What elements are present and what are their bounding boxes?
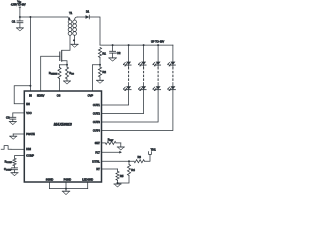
LED D3A: [152, 62, 160, 67]
wire RSENSE to CS pin: [59, 79, 61, 92]
svg-text:C2: C2: [117, 51, 121, 55]
svg-text:COMP: COMP: [26, 154, 34, 158]
ground C1: [16, 27, 23, 29]
signal DIM pulse: [1, 146, 24, 150]
wire secondary to ground: [74, 35, 76, 44]
resistor R3: [134, 155, 145, 163]
junction rail string 2: [143, 44, 145, 46]
transformer T1 primary winding: [67, 17, 71, 35]
wire drain: [62, 35, 70, 50]
svg-text:OUT4: OUT4: [93, 129, 100, 133]
svg-text:RT: RT: [96, 167, 100, 171]
wire string 2 dashed (more LEDs): [143, 65, 145, 86]
wire string 4 dashed (more LEDs): [172, 65, 174, 86]
polarity dot secondary: [73, 39, 75, 41]
ground R2: [97, 79, 104, 81]
wire R1 to R2: [99, 58, 101, 68]
ground R4-R5: [114, 183, 121, 185]
svg-text:VCC: VCC: [26, 111, 32, 115]
resistor R5: [102, 169, 124, 184]
node VIN input terminal: [11, 0, 26, 17]
junction OVP tap: [99, 64, 101, 66]
LED D1A: [123, 62, 131, 67]
svg-text:OVP: OVP: [88, 93, 94, 97]
svg-text:SGND: SGND: [46, 177, 54, 181]
junction R4-R5: [117, 182, 119, 184]
wire LEDGND drop: [87, 182, 89, 189]
LED D2A: [138, 62, 146, 67]
wire OVP tap: [92, 65, 100, 91]
svg-text:PGND: PGND: [64, 177, 72, 181]
capacitor C2: [110, 45, 121, 58]
svg-text:T1: T1: [69, 11, 73, 15]
wire ground bus: [50, 188, 88, 190]
resistor R2: [98, 67, 106, 77]
LED D2B: [138, 86, 146, 91]
wire R2 to ground: [99, 77, 101, 80]
resistor RSET: [102, 137, 121, 144]
transistor N1 gate bar: [59, 52, 61, 61]
junction rail-C2: [112, 44, 114, 46]
wire string 3 to OUT3: [102, 90, 159, 123]
wire string 3 dashed (more LEDs): [157, 65, 159, 86]
wire LED rail: [100, 44, 173, 46]
wire source: [62, 61, 67, 67]
svg-text:RSENSE: RSENSE: [49, 71, 58, 76]
capacitor C1: [12, 17, 23, 28]
junction IN-drop: [29, 16, 31, 18]
transformer T1 secondary winding: [73, 17, 77, 35]
wire R3 to TH1: [145, 155, 151, 162]
junction EN tap: [29, 85, 31, 87]
signal FLT arrow: [102, 151, 122, 154]
wire string 4 to OUT4: [102, 90, 173, 131]
resistor RCS: [65, 67, 74, 79]
svg-text:R1: R1: [102, 52, 106, 56]
svg-text:OUT3: OUT3: [93, 120, 100, 124]
svg-text:UP TO 40V: UP TO 40V: [151, 39, 164, 43]
polarity dot primary: [68, 18, 70, 20]
svg-text:TH1: TH1: [151, 148, 157, 152]
wire PGND drop: [65, 182, 67, 189]
wire string 1 dashed (more LEDs): [128, 65, 130, 86]
resistor RSENSE: [49, 65, 61, 79]
svg-text:D1: D1: [86, 10, 90, 13]
wire NDRV to gate: [41, 56, 60, 91]
wire RCS to ground: [66, 79, 68, 81]
svg-text:OUT2: OUT2: [93, 112, 100, 116]
svg-text:4.75V TO 40V: 4.75V TO 40V: [11, 5, 26, 7]
wire string 2 anode: [143, 45, 145, 62]
capacitor C3: [6, 113, 24, 122]
junction source node: [66, 64, 68, 66]
op-amp U1 MAX16813 outline: [24, 91, 101, 182]
svg-text:RSET: RSET: [108, 137, 114, 142]
svg-text:RCS: RCS: [69, 71, 74, 76]
svg-text:R4: R4: [131, 168, 135, 172]
ground main: [62, 189, 69, 195]
svg-text:OUT1: OUT1: [93, 103, 100, 107]
capacitor CCOMP: [4, 166, 17, 173]
ground CCOMP: [11, 172, 18, 174]
LED D4B: [167, 86, 175, 91]
wire IN drop: [29, 17, 31, 91]
terminal TH1: [149, 148, 157, 155]
ground C2: [109, 57, 117, 59]
svg-text:C1: C1: [12, 20, 16, 24]
wire string 3 anode: [157, 45, 159, 62]
svg-text:NDRV: NDRV: [37, 93, 45, 97]
ground RCS: [64, 80, 71, 82]
svg-text:DIM: DIM: [26, 147, 31, 151]
wire CS rail: [60, 64, 68, 66]
svg-text:R5: R5: [120, 174, 124, 178]
svg-text:MAX16813: MAX16813: [54, 123, 72, 127]
LED D3B: [152, 86, 160, 91]
svg-text:IN: IN: [29, 93, 32, 97]
wire EN branch: [14, 86, 30, 104]
transistor N1 channel bar: [61, 51, 63, 61]
svg-text:PGATE: PGATE: [26, 132, 35, 136]
svg-text:CS: CS: [57, 93, 61, 97]
diode D1: [86, 10, 90, 19]
resistor RCOMP: [5, 158, 16, 166]
wire string 2 to OUT2: [102, 90, 144, 114]
svg-text:SET: SET: [95, 141, 100, 145]
svg-text:LEDGND: LEDGND: [82, 177, 93, 181]
wire string 1 anode: [128, 45, 130, 62]
wire string 1 to OUT1: [102, 90, 129, 106]
LED D4A: [167, 62, 175, 67]
svg-text:FLT: FLT: [95, 150, 100, 154]
junction rail string 1: [128, 44, 130, 46]
junction ground bus: [65, 188, 67, 190]
resistor R4: [118, 161, 136, 183]
junction VIN-C1: [19, 16, 21, 18]
wire D1 to rail corner: [89, 17, 100, 45]
wire PGATE: [13, 133, 24, 135]
svg-text:ICTRL: ICTRL: [92, 159, 100, 163]
wire ICTRL: [102, 160, 135, 162]
ground RSET: [117, 143, 124, 150]
svg-text:R3: R3: [137, 155, 141, 159]
svg-text:RCOMP: RCOMP: [5, 160, 13, 165]
svg-text:R2: R2: [102, 70, 106, 74]
wire T1 to D1: [77, 16, 85, 18]
ground secondary: [71, 43, 78, 45]
LED D1B: [123, 86, 131, 91]
wire VIN rail: [20, 16, 68, 18]
resistor R1: [98, 48, 106, 58]
svg-text:VIN: VIN: [17, 0, 21, 4]
junction ICTRL node: [128, 160, 130, 162]
ground C3: [9, 121, 16, 123]
wire SGND drop: [49, 182, 51, 189]
wire string 4 anode: [172, 45, 174, 62]
svg-text:EN: EN: [26, 102, 30, 106]
wire COMP: [15, 156, 25, 159]
ground PGATE: [10, 134, 17, 139]
junction rail string 3: [157, 44, 159, 46]
